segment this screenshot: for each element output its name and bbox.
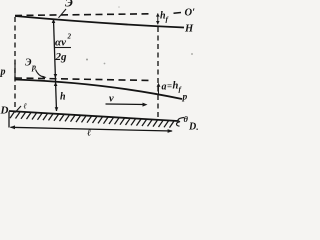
svg-text:=: = [167,81,172,91]
svg-text:D: D [0,105,9,117]
vertical dimension line (velocity head above, depth h below) [54,20,57,112]
svg-text:Э: Э [65,0,73,10]
length dimension line [11,127,173,131]
svg-text:p: p [182,93,188,103]
paper specks [86,59,88,61]
svg-text:.: . [196,122,198,132]
left vertical dashed section line [14,17,16,110]
svg-text:θ: θ [184,114,189,124]
channel bottom line (hatched) [9,111,178,121]
dimension arrow h_f (head loss, top right) [157,14,159,25]
svg-text:2g: 2g [55,51,68,63]
end curl at right of channel bottom [176,118,184,127]
piezometric initial dashed line [15,78,152,81]
energy grade line Э (solid, sloping) [15,16,184,28]
svg-text:O′: O′ [185,8,196,19]
svg-text:ℓ: ℓ [87,128,91,139]
svg-text:αv: αv [55,37,66,49]
dash before O' label [174,12,182,15]
paper background [0,0,198,147]
svg-text:v: v [109,94,114,105]
hatching strokes [10,112,174,128]
left end wall segment [8,112,10,128]
svg-text:2: 2 [67,33,72,41]
leader to label Э [59,9,67,18]
svg-text:a: a [162,82,167,93]
svg-text:h: h [60,92,66,103]
initial energy head line O'-O' (dashed, top) [15,14,152,16]
piezometric line Э_p (solid, sloping) [15,80,182,100]
svg-text:Э: Э [25,58,32,69]
right vertical dashed section line [157,27,159,120]
svg-text:H: H [184,24,194,35]
dimension arrow a (right, between dashed and piezometric line) [158,84,160,95]
svg-text:D: D [188,122,196,133]
svg-text:p: p [0,67,6,78]
curved arrow from Э_p to line [36,70,45,78]
velocity arrow [106,103,146,106]
solid segment of left vertical line [14,63,16,80]
svg-text:ℓ: ℓ [24,102,28,111]
leader slash on channel bottom [15,106,21,113]
